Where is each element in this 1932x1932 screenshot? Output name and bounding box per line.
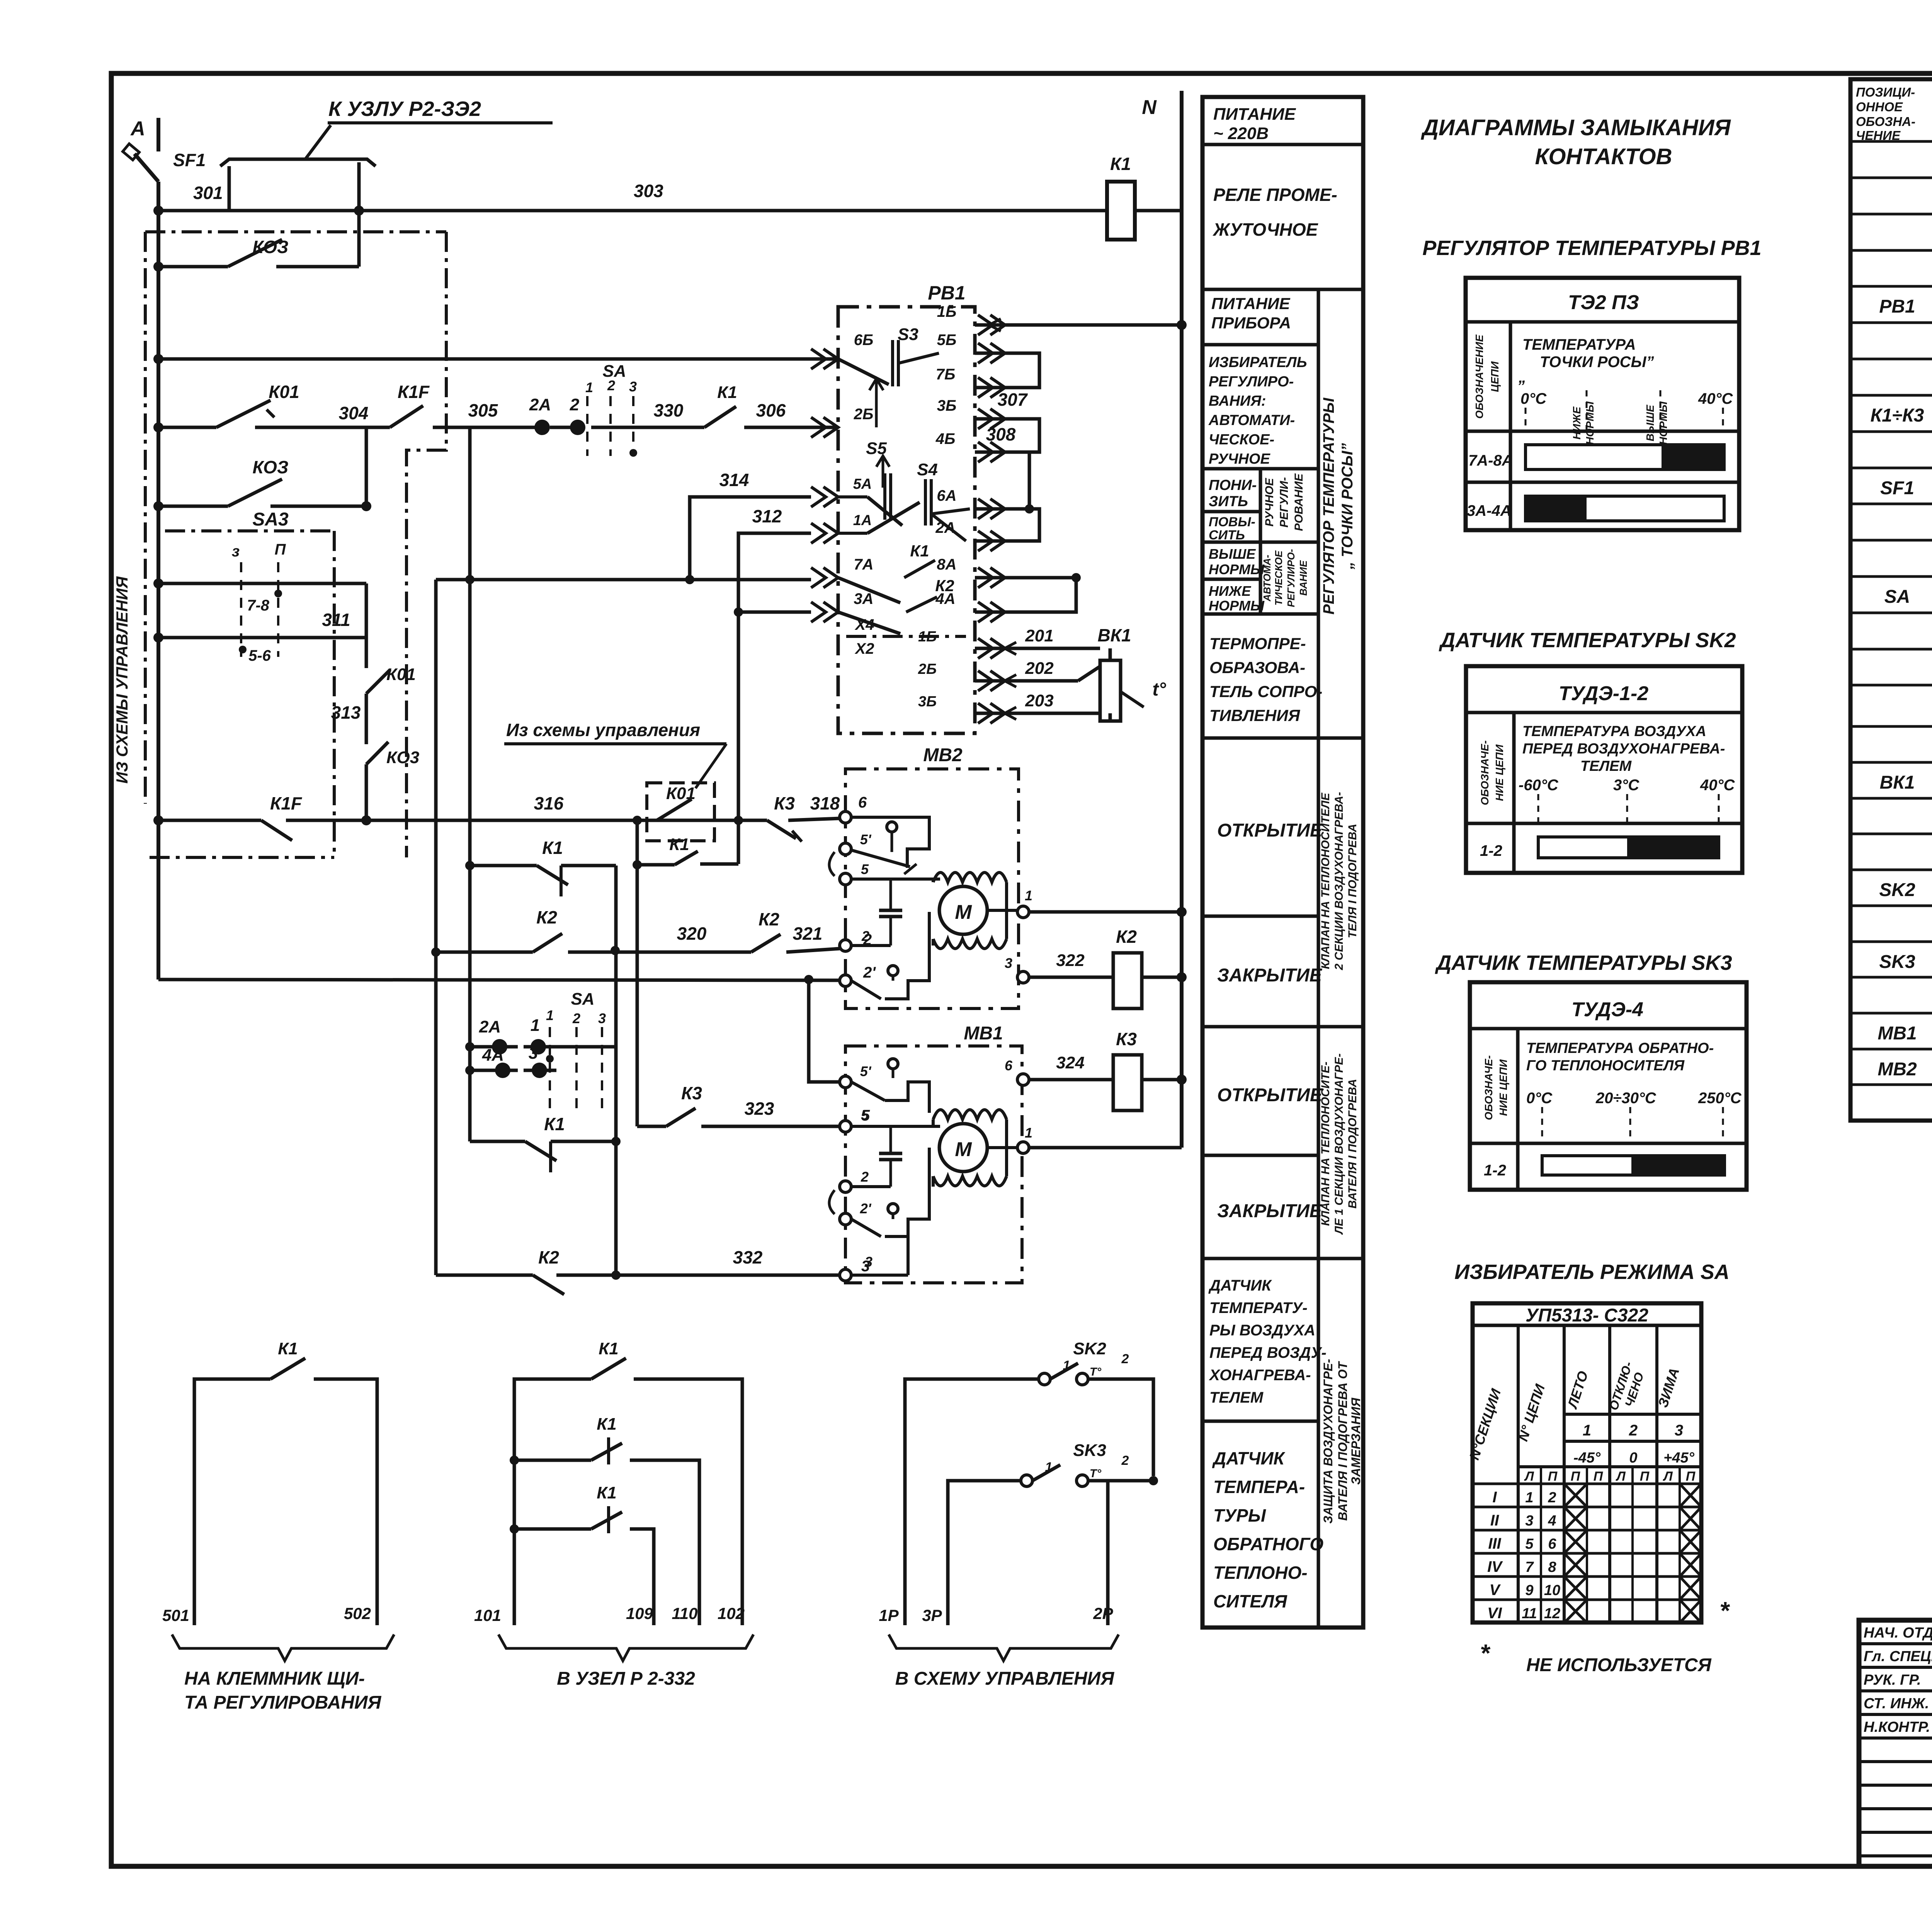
fragment1 terminal 502 bbox=[344, 1604, 371, 1622]
heading datchik temperatury SK2 bbox=[1439, 629, 1736, 652]
parts row SF1 line1 bbox=[1880, 477, 1932, 498]
fragment1 label K1 bbox=[278, 1339, 298, 1358]
fragment3 label SK2 bbox=[1063, 1339, 1129, 1378]
svg-text:К2: К2 bbox=[1116, 927, 1137, 947]
fragment3 top rung with SK2 bbox=[905, 1363, 1153, 1625]
box TUDE-1-2 grid bbox=[1466, 666, 1742, 873]
svg-text:НИЕ ЦЕПИ: НИЕ ЦЕПИ bbox=[1493, 744, 1505, 801]
svg-text:307: 307 bbox=[998, 389, 1028, 410]
svg-text:314: 314 bbox=[719, 470, 749, 490]
svg-text:0: 0 bbox=[1629, 1450, 1637, 1466]
svg-text:ЦЕПИ: ЦЕПИ bbox=[1489, 361, 1501, 392]
SA group2 dashed shafts bbox=[546, 990, 606, 1113]
legend cell pitanie 220V bbox=[1213, 105, 1296, 143]
svg-text:4: 4 bbox=[1548, 1513, 1556, 1529]
svg-text:SF1: SF1 bbox=[1880, 478, 1914, 498]
label K3 323 bbox=[681, 1083, 702, 1103]
label 320 bbox=[677, 923, 707, 944]
svg-text:250°С: 250°С bbox=[1698, 1090, 1742, 1107]
svg-text:9: 9 bbox=[1525, 1582, 1533, 1599]
PB1 pin 1B to N bbox=[937, 303, 1187, 335]
svg-text:К1: К1 bbox=[717, 383, 737, 402]
svg-text:ОТКРЫТИЕ: ОТКРЫТИЕ bbox=[1217, 820, 1323, 841]
actuator MB1 dash-dot box bbox=[845, 1046, 1022, 1283]
svg-text:332: 332 bbox=[733, 1247, 763, 1267]
svg-text:20÷30°С: 20÷30°С bbox=[1595, 1090, 1656, 1107]
box TUDE-1-2 row 1-2 bar bbox=[1480, 837, 1719, 859]
svg-text:ОБРАТНОГО: ОБРАТНОГО bbox=[1213, 1534, 1323, 1554]
legend cell otkrytie 1 bbox=[1217, 820, 1323, 841]
svg-text:501: 501 bbox=[162, 1606, 189, 1624]
svg-text:7А-8А: 7А-8А bbox=[1468, 452, 1513, 469]
heading regulyator temperatury RB1 bbox=[1422, 236, 1761, 260]
svg-text:ВАТЕЛЯ I ПОДОГРЕВА ОТ: ВАТЕЛЯ I ПОДОГРЕВА ОТ bbox=[1336, 1361, 1350, 1521]
svg-text:ПОНИ-: ПОНИ- bbox=[1209, 477, 1257, 493]
fragment1 terminal 501 bbox=[162, 1606, 189, 1624]
svg-text:40°С: 40°С bbox=[1700, 777, 1735, 794]
label 303 bbox=[634, 181, 663, 201]
svg-text:Л: Л bbox=[1662, 1469, 1673, 1484]
SA3 dashed shafts bbox=[232, 541, 286, 657]
svg-text:К01: К01 bbox=[666, 784, 696, 803]
fragment2 caption bbox=[557, 1668, 695, 1689]
label 2A top bbox=[529, 395, 551, 414]
wire 3A rung bbox=[734, 607, 811, 617]
svg-text:РЕГУЛЯТОР ТЕМПЕРАТУРЫ РВ1: РЕГУЛЯТОР ТЕМПЕРАТУРЫ РВ1 bbox=[1422, 236, 1761, 260]
svg-text:0°С: 0°С bbox=[1520, 390, 1547, 407]
SA3 rung 5-6 bbox=[153, 633, 366, 653]
legend rotated avtomaticheskoe regulirovanie bbox=[1261, 549, 1309, 607]
svg-text:2 СЕКЦИИ ВОЗДУХОНАГРЕВА-: 2 СЕКЦИИ ВОЗДУХОНАГРЕВА- bbox=[1333, 792, 1345, 971]
MB2 terminal 1 to N bbox=[986, 888, 1187, 918]
svg-text:КЛАПАН НА ТЕПЛОНОСИТЕЛЕ: КЛАПАН НА ТЕПЛОНОСИТЕЛЕ bbox=[1319, 793, 1332, 969]
svg-text:УП5313- С322: УП5313- С322 bbox=[1526, 1305, 1648, 1326]
legend cell povysit bbox=[1209, 515, 1255, 543]
svg-text:НИЖЕ: НИЖЕ bbox=[1209, 583, 1251, 599]
SA mode table grid bbox=[1473, 1303, 1701, 1623]
svg-text:К УЗЛУ Р2-ЗЭ2: К УЗЛУ Р2-ЗЭ2 bbox=[328, 97, 481, 121]
legend cell datchik temperatury vozduha bbox=[1208, 1277, 1327, 1406]
svg-text:ТИЧЕСКОЕ: ТИЧЕСКОЕ bbox=[1273, 550, 1284, 605]
svg-text:201: 201 bbox=[1025, 626, 1053, 645]
svg-text:ТИВЛЕНИЯ: ТИВЛЕНИЯ bbox=[1209, 706, 1301, 724]
svg-text:ЧЕСКОЕ-: ЧЕСКОЕ- bbox=[1209, 432, 1274, 448]
svg-text:5Б: 5Б bbox=[937, 332, 957, 349]
SA mode table data rows bbox=[1487, 1484, 1701, 1623]
label K1 coil bbox=[1110, 154, 1131, 174]
svg-text:ТЕЛЕМ: ТЕЛЕМ bbox=[1209, 1389, 1264, 1406]
svg-text:323: 323 bbox=[745, 1099, 774, 1119]
title block grid bbox=[1859, 1620, 1932, 1866]
svg-text:КОНТАКТОВ: КОНТАКТОВ bbox=[1535, 144, 1672, 169]
svg-text:3А: 3А bbox=[854, 590, 873, 607]
contact K1 under KO1 bbox=[633, 816, 743, 1126]
svg-text:ИЗБИРАТЕЛЬ РЕЖИМА SA: ИЗБИРАТЕЛЬ РЕЖИМА SA bbox=[1454, 1260, 1730, 1284]
box TE2P3 grid bbox=[1466, 278, 1739, 530]
label K2 332 bbox=[538, 1247, 559, 1267]
svg-text:2А: 2А bbox=[935, 519, 955, 536]
legend cell otkrytie 2 bbox=[1217, 1085, 1323, 1105]
svg-text:312: 312 bbox=[752, 506, 782, 526]
svg-text:НОРМЫ: НОРМЫ bbox=[1657, 401, 1669, 445]
svg-text:2': 2' bbox=[860, 1201, 872, 1216]
parts row RB1 line1 bbox=[1879, 295, 1932, 317]
svg-text:*: * bbox=[1719, 1597, 1730, 1624]
svg-text:3: 3 bbox=[1675, 1422, 1683, 1439]
svg-text:1Б: 1Б bbox=[937, 303, 957, 320]
svg-text:3: 3 bbox=[1525, 1513, 1533, 1529]
fragment1 wires and K1 contact bbox=[194, 1358, 377, 1625]
svg-text:КОЗ: КОЗ bbox=[252, 237, 288, 257]
svg-text:5А: 5А bbox=[853, 476, 872, 492]
svg-text:К3: К3 bbox=[774, 793, 795, 813]
fragment2 top rung with K1 bbox=[514, 1358, 742, 1625]
svg-text:К1: К1 bbox=[544, 1114, 565, 1134]
svg-text:СИТЕЛЯ: СИТЕЛЯ bbox=[1213, 1591, 1287, 1611]
svg-text:305: 305 bbox=[468, 400, 498, 420]
svg-text:ОБОЗНАЧЕ-: ОБОЗНАЧЕ- bbox=[1479, 740, 1491, 805]
box TUDE-1-2 rotated oboznachenie bbox=[1479, 740, 1505, 805]
bus A vertical bbox=[156, 118, 160, 980]
svg-text:12: 12 bbox=[1544, 1605, 1560, 1622]
box TUDE-1-2 title bbox=[1559, 682, 1648, 705]
svg-text:АВТОМАТИ-: АВТОМАТИ- bbox=[1208, 412, 1295, 429]
svg-text:Н.КОНТР.: Н.КОНТР. bbox=[1864, 1719, 1930, 1735]
svg-text:SK3: SK3 bbox=[1879, 952, 1915, 972]
MB1 terminals 2 2prime 3 limit switch bbox=[829, 1148, 929, 1281]
svg-text:322: 322 bbox=[1056, 951, 1085, 970]
PB1 pins 3B 4B jumper bbox=[935, 397, 1039, 462]
svg-text:ПИТАНИЕ: ПИТАНИЕ bbox=[1211, 294, 1291, 313]
MB1 terminal 5prime limit switch bbox=[840, 1059, 929, 1113]
svg-text:РЕЛЕ ПРОМЕ-: РЕЛЕ ПРОМЕ- bbox=[1213, 185, 1337, 205]
svg-text:SK2: SK2 bbox=[1073, 1339, 1106, 1358]
svg-text:ИЗ СХЕМЫ УПРАВЛЕНИЯ: ИЗ СХЕМЫ УПРАВЛЕНИЯ bbox=[113, 576, 131, 784]
svg-text:202: 202 bbox=[1025, 659, 1054, 678]
svg-text:„ ТОЧКИ РОСЫ”: „ ТОЧКИ РОСЫ” bbox=[1339, 443, 1356, 570]
label SF1 bbox=[173, 150, 206, 170]
svg-text:1: 1 bbox=[1525, 1490, 1533, 1506]
contact KO3 top rung bbox=[153, 206, 364, 272]
rung 323 with K3 contact bbox=[637, 1108, 840, 1126]
parts row SK2 line1 bbox=[1879, 879, 1932, 900]
label K2 left bbox=[536, 907, 557, 927]
svg-text:АВТОМА-: АВТОМА- bbox=[1261, 555, 1273, 602]
label 301 bbox=[193, 183, 223, 203]
wire to pin 6B bbox=[153, 354, 838, 364]
box TE2P3 title bbox=[1568, 291, 1639, 314]
svg-text:1-2: 1-2 bbox=[1484, 1162, 1506, 1179]
svg-text:6: 6 bbox=[1005, 1058, 1013, 1073]
MB1 terminal 1 to N bbox=[986, 1125, 1182, 1153]
svg-text:ЗАКРЫТИЕ: ЗАКРЫТИЕ bbox=[1217, 1201, 1323, 1221]
svg-text:1: 1 bbox=[1025, 1125, 1032, 1141]
svg-text:ТЕПЛОНО-: ТЕПЛОНО- bbox=[1213, 1563, 1308, 1583]
MB2 terminals 6 5prime 5 with limit switch bbox=[829, 794, 929, 885]
svg-text:ВАНИЕ: ВАНИЕ bbox=[1298, 560, 1309, 596]
svg-text:МВ2: МВ2 bbox=[923, 745, 963, 765]
svg-text:8: 8 bbox=[1548, 1559, 1556, 1575]
svg-text:ОННОЕ: ОННОЕ bbox=[1856, 100, 1903, 114]
label 307 bbox=[998, 389, 1028, 410]
MB2 terminal 3 wire 322 relay coil K2 bbox=[1005, 951, 1187, 1009]
vertical 313 with KO1 KO3 contacts bbox=[366, 583, 390, 820]
diagrams title bbox=[1420, 115, 1731, 169]
fragment3 terminal labels bbox=[879, 1604, 1113, 1624]
svg-text:3: 3 bbox=[865, 1254, 872, 1270]
fragment1 brace bbox=[172, 1634, 394, 1661]
svg-text:НИЕ ЦЕПИ: НИЕ ЦЕПИ bbox=[1497, 1059, 1509, 1116]
fragment3 brace bbox=[889, 1634, 1119, 1661]
regulator PB1 dash-dot box bbox=[838, 307, 975, 733]
svg-text:IV: IV bbox=[1487, 1558, 1503, 1575]
label k uzlu R2-332 bbox=[328, 97, 553, 123]
label 2 top bbox=[570, 395, 580, 414]
PB1 internal divider X4 X2 bbox=[846, 635, 966, 638]
svg-text:ЖУТОЧНОЕ: ЖУТОЧНОЕ bbox=[1213, 219, 1318, 240]
svg-text:~ 220В: ~ 220В bbox=[1213, 124, 1269, 143]
bus N vertical bbox=[1180, 91, 1184, 1148]
label 4A bbox=[482, 1046, 504, 1065]
MB1 terminal 6 wire 324 relay coil K3 bbox=[1005, 1053, 1187, 1111]
MB1 motor bbox=[933, 1110, 1007, 1187]
thermal resistor BK1 bbox=[1100, 648, 1144, 721]
wire 314 to pin 5A bbox=[690, 497, 811, 580]
rung K1 selfhold MB2 bbox=[465, 861, 616, 1275]
parts row MB2 bbox=[1878, 1058, 1932, 1083]
svg-text:ВАТЕЛЯ I ПОДОГРЕВА: ВАТЕЛЯ I ПОДОГРЕВА bbox=[1346, 1079, 1359, 1208]
box TUDE-1-2 scale bbox=[1519, 723, 1735, 823]
svg-text:КОЗ: КОЗ bbox=[252, 457, 288, 477]
svg-text:ТЕМПЕРАТУРА ВОЗДУХА: ТЕМПЕРАТУРА ВОЗДУХА bbox=[1522, 723, 1706, 740]
svg-text:ЧЕНИЕ: ЧЕНИЕ bbox=[1856, 128, 1901, 143]
svg-text:ТЕЛЯ I ПОДОГРЕВА: ТЕЛЯ I ПОДОГРЕВА bbox=[1346, 824, 1359, 938]
svg-text:303: 303 bbox=[634, 181, 663, 201]
rung 332 with K2 contact bbox=[436, 1270, 840, 1294]
svg-text:К2: К2 bbox=[935, 577, 954, 595]
box TUDE-4 title bbox=[1571, 998, 1643, 1021]
svg-text:502: 502 bbox=[344, 1604, 371, 1622]
svg-text:t°: t° bbox=[1152, 679, 1166, 700]
svg-text:301: 301 bbox=[193, 183, 223, 203]
label 312 bbox=[752, 506, 782, 526]
svg-text:2: 2 bbox=[570, 395, 580, 414]
svg-text:2Б: 2Б bbox=[918, 661, 937, 677]
svg-text:S3: S3 bbox=[898, 325, 918, 344]
svg-text:П: П bbox=[1594, 1469, 1604, 1484]
fragment2 low rung with K1 contact bbox=[510, 1506, 654, 1625]
svg-text:ОБРАЗОВА-: ОБРАЗОВА- bbox=[1209, 658, 1305, 677]
PB1 contact S3 bbox=[838, 340, 939, 386]
svg-text:ТЕЛЕМ: ТЕЛЕМ bbox=[1580, 758, 1632, 774]
PB1 pin 3A bbox=[811, 590, 874, 622]
svg-text:318: 318 bbox=[810, 793, 840, 813]
rung 304-305 contacts KO1 K1F bbox=[153, 400, 542, 432]
svg-text:3: 3 bbox=[629, 379, 637, 395]
svg-text:313: 313 bbox=[331, 702, 361, 723]
legend cell ponizit bbox=[1209, 477, 1257, 510]
svg-text:К2: К2 bbox=[538, 1247, 559, 1267]
svg-text:ГО ТЕПЛОНОСИТЕЛЯ: ГО ТЕПЛОНОСИТЕЛЯ bbox=[1526, 1058, 1685, 1074]
svg-text:0°С: 0°С bbox=[1526, 1090, 1553, 1107]
svg-text:ДАТЧИК ТЕМПЕРАТУРЫ SK2: ДАТЧИК ТЕМПЕРАТУРЫ SK2 bbox=[1439, 629, 1736, 652]
SA group1 dots 2A 2 bbox=[534, 420, 585, 435]
label 3 low bbox=[529, 1044, 538, 1063]
svg-text:ТА РЕГУЛИРОВАНИЯ: ТА РЕГУЛИРОВАНИЯ bbox=[184, 1692, 381, 1713]
svg-text:ЗАКРЫТИЕ: ЗАКРЫТИЕ bbox=[1217, 965, 1323, 986]
svg-text:ИЗБИРАТЕЛЬ: ИЗБИРАТЕЛЬ bbox=[1209, 354, 1307, 371]
svg-text:2: 2 bbox=[1548, 1490, 1556, 1506]
svg-text:МВ1: МВ1 bbox=[964, 1023, 1003, 1044]
svg-text:РУЧНОЕ: РУЧНОЕ bbox=[1263, 478, 1276, 526]
wire to terminal 2prime and MB1 5prime bbox=[158, 975, 840, 1082]
relay coil K1 bbox=[1107, 182, 1182, 240]
fragment3 label SK3 bbox=[1045, 1441, 1129, 1480]
svg-text:5-6: 5-6 bbox=[248, 647, 271, 664]
label 323 bbox=[745, 1099, 774, 1119]
svg-text:Гл. СПЕЦ.: Гл. СПЕЦ. bbox=[1864, 1648, 1932, 1665]
label 7-8 bbox=[247, 597, 270, 614]
PB1 contact S5 bbox=[867, 456, 902, 526]
fragment3 2P vertical bbox=[1106, 1481, 1110, 1625]
svg-text:1-2: 1-2 bbox=[1480, 842, 1502, 859]
label 316 bbox=[534, 793, 564, 813]
SA3 rung 7-8 bbox=[153, 578, 366, 597]
svg-text:1: 1 bbox=[1583, 1422, 1591, 1439]
svg-text:2: 2 bbox=[861, 1169, 869, 1185]
box TUDE-4 row 1-2 bar bbox=[1484, 1156, 1725, 1179]
legend cell izbiratel regulirovaniya bbox=[1208, 354, 1307, 467]
svg-text:П: П bbox=[275, 541, 286, 558]
svg-text:РЕГУЛИРО-: РЕГУЛИРО- bbox=[1209, 374, 1294, 390]
label MB1 bbox=[964, 1023, 1003, 1044]
legend cell termopreobrazovatel bbox=[1209, 634, 1322, 724]
svg-text:П: П bbox=[1571, 1469, 1581, 1484]
wire 330 with K1 contact bbox=[591, 406, 838, 427]
svg-text:11: 11 bbox=[1522, 1605, 1537, 1622]
svg-text:2: 2 bbox=[861, 928, 869, 944]
PB1 pin 3B bottom wire 203 bbox=[918, 691, 1110, 723]
rotated label iz shemy upravleniya bbox=[113, 576, 131, 784]
svg-text:1: 1 bbox=[1063, 1358, 1070, 1373]
label X2 bbox=[855, 640, 874, 657]
svg-text:SK2: SK2 bbox=[1879, 880, 1915, 900]
svg-text:+45°: +45° bbox=[1663, 1450, 1694, 1466]
bracket k uzlu R2-332 bbox=[220, 125, 376, 211]
fragment2 label K1 low bbox=[597, 1483, 617, 1502]
PB1 contact K2 internal bbox=[838, 597, 937, 634]
label 5 term bbox=[861, 1107, 870, 1124]
SA group1 dashed shafts bbox=[585, 362, 637, 457]
svg-text:Л: Л bbox=[1524, 1469, 1534, 1484]
heading datchik temperatury SK3 bbox=[1435, 951, 1732, 975]
parts row SK3 line1 bbox=[1879, 951, 1932, 972]
svg-text:ЛЕ 1 СЕКЦИИ ВОЗДУХОНАГРЕ-: ЛЕ 1 СЕКЦИИ ВОЗДУХОНАГРЕ- bbox=[1333, 1053, 1345, 1235]
PB1 pin 1B bottom wire 201 bbox=[918, 626, 1100, 658]
label PB1 bbox=[928, 282, 965, 304]
svg-text:К2: К2 bbox=[536, 907, 557, 927]
svg-text:7А: 7А bbox=[854, 556, 873, 573]
svg-text:N: N bbox=[1142, 96, 1157, 119]
svg-text:2: 2 bbox=[572, 1010, 580, 1026]
svg-text:ТЕМПЕРАТУРА ОБРАТНО-: ТЕМПЕРАТУРА ОБРАТНО- bbox=[1526, 1040, 1714, 1056]
svg-text:В УЗЕЛ Р 2-332: В УЗЕЛ Р 2-332 bbox=[557, 1668, 695, 1689]
svg-text:К01: К01 bbox=[386, 665, 416, 684]
legend cell nizhe normy bbox=[1209, 583, 1265, 614]
svg-text:ДАТЧИК: ДАТЧИК bbox=[1208, 1277, 1272, 1294]
label 305 bbox=[468, 400, 498, 420]
rung 320-321 with K2 contacts bbox=[431, 934, 840, 957]
svg-text:S4: S4 bbox=[917, 460, 938, 479]
svg-text:П: П bbox=[1686, 1469, 1696, 1484]
svg-text:ЗАЩИТА ВОЗДУХОНАГРЕ-: ЗАЩИТА ВОЗДУХОНАГРЕ- bbox=[1321, 1359, 1335, 1524]
label 318 bbox=[810, 793, 840, 813]
svg-text:НЕ ИСПОЛЬЗУЕТСЯ: НЕ ИСПОЛЬЗУЕТСЯ bbox=[1526, 1655, 1712, 1675]
svg-text:К1F: К1F bbox=[270, 793, 303, 813]
svg-text:I: I bbox=[1492, 1489, 1497, 1506]
svg-text:1: 1 bbox=[1045, 1460, 1053, 1475]
svg-text:Из схемы управления: Из схемы управления bbox=[506, 720, 700, 740]
svg-text:ЗИТЬ: ЗИТЬ bbox=[1209, 493, 1248, 510]
svg-text:Т°: Т° bbox=[1090, 1467, 1102, 1480]
legend cell vyshe normy bbox=[1209, 546, 1265, 577]
svg-text:2Р: 2Р bbox=[1093, 1604, 1113, 1622]
label 321 bbox=[793, 923, 823, 944]
svg-text:ПЕРЕД ВОЗДУХОНАГРЕВА-: ПЕРЕД ВОЗДУХОНАГРЕВА- bbox=[1522, 741, 1725, 757]
vertical 313 upper bbox=[365, 427, 368, 506]
svg-text:К2: К2 bbox=[759, 909, 779, 929]
svg-text:5': 5' bbox=[860, 1063, 872, 1079]
label K1F 316 bbox=[270, 793, 303, 813]
legend cell rele promezhutochnoe bbox=[1213, 185, 1337, 240]
PB1 pins 8A 4A jumper bbox=[935, 556, 1081, 622]
svg-text:П: П bbox=[1640, 1469, 1650, 1484]
box TE2P3 rotated oboznachenie bbox=[1473, 334, 1501, 419]
fragment2 terminal numbers bbox=[474, 1604, 745, 1624]
svg-text:SA: SA bbox=[1884, 587, 1910, 607]
svg-text:ВК1: ВК1 bbox=[1097, 625, 1131, 645]
label 308 bbox=[986, 424, 1016, 444]
svg-text:К3: К3 bbox=[1116, 1029, 1137, 1049]
label BK1 bbox=[1097, 625, 1131, 645]
label 304 bbox=[339, 403, 369, 423]
svg-text:К1: К1 bbox=[542, 838, 563, 858]
svg-text:2: 2 bbox=[1121, 1352, 1129, 1366]
svg-text:ВЫШЕ: ВЫШЕ bbox=[1209, 546, 1256, 562]
label K3 318 bbox=[774, 793, 795, 813]
svg-text:1Б: 1Б bbox=[918, 629, 937, 645]
svg-text:ТУДЭ-4: ТУДЭ-4 bbox=[1571, 998, 1643, 1021]
svg-text:ПИТАНИЕ: ПИТАНИЕ bbox=[1213, 105, 1296, 124]
svg-text:К1: К1 bbox=[597, 1415, 617, 1434]
svg-text:К1: К1 bbox=[278, 1339, 298, 1358]
PB1 contact S4 bbox=[867, 479, 970, 541]
svg-text:ОТКРЫТИЕ: ОТКРЫТИЕ bbox=[1217, 1085, 1323, 1105]
svg-text:321: 321 bbox=[793, 923, 823, 944]
svg-text:3Б: 3Б bbox=[937, 397, 957, 414]
fragment2 brace bbox=[498, 1634, 753, 1661]
label SA3 bbox=[252, 509, 289, 530]
svg-text:ТЕМПЕРАТУ-: ТЕМПЕРАТУ- bbox=[1209, 1299, 1308, 1316]
rung K1 selfhold low bbox=[470, 1137, 621, 1172]
svg-text:„: „ bbox=[1518, 369, 1526, 386]
label S5 bbox=[866, 439, 887, 458]
svg-text:110: 110 bbox=[672, 1604, 698, 1622]
box TUDE-4 rotated oboznachenie bbox=[1483, 1055, 1509, 1120]
legend cell zakrytie 1 bbox=[1217, 965, 1323, 986]
box TUDE-4 grid bbox=[1470, 982, 1747, 1190]
svg-text:3А-4А: 3А-4А bbox=[1467, 502, 1512, 519]
